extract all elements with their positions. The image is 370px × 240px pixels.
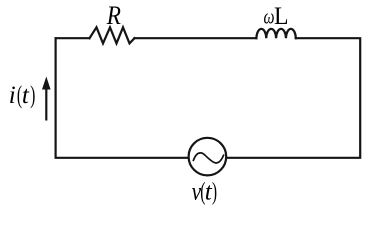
current arrow head bbox=[42, 77, 51, 90]
svg-text:t: t bbox=[22, 82, 30, 109]
svg-text:): ) bbox=[212, 178, 217, 205]
wire bottom-left + left side segment bbox=[56, 38, 189, 158]
svg-text:ω: ω bbox=[264, 5, 275, 29]
resistor R1 zigzag bbox=[90, 27, 135, 43]
label i(t) bbox=[9, 82, 36, 109]
source V1 circle bbox=[189, 138, 227, 176]
source V1 sine wave bbox=[193, 153, 223, 163]
wire top-middle segment bbox=[135, 37, 257, 39]
svg-text:): ) bbox=[30, 82, 35, 109]
svg-text:R: R bbox=[106, 1, 121, 30]
label v(t) bbox=[192, 178, 217, 205]
wire top-right + right side + bottom-right segment bbox=[226, 38, 360, 158]
current arrow i(t) shaft bbox=[45, 88, 47, 121]
svg-text:L: L bbox=[274, 1, 289, 30]
svg-text:i: i bbox=[9, 82, 16, 109]
inductor L1 coils bbox=[256, 29, 295, 38]
wire top-left segment bbox=[56, 37, 90, 39]
